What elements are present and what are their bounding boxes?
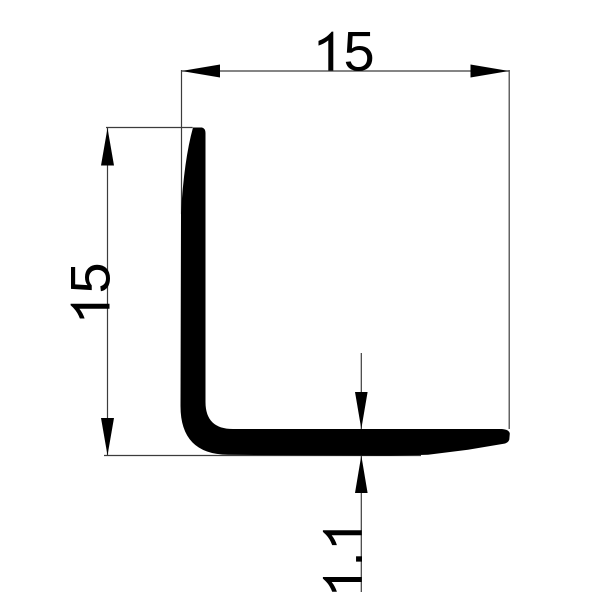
arrowhead: left dim bottom — [101, 418, 114, 456]
svg-text:5: 5 — [344, 20, 375, 83]
arrowhead: top dim left — [182, 65, 221, 78]
dimension line: left height 15 — [107, 128, 109, 456]
dimension text: 15 (left, rotated) — [59, 262, 122, 318]
extension line: top-left vertical — [181, 70, 183, 214]
extension line: left-top horizontal — [106, 127, 193, 129]
extension line: left-bottom horizontal — [104, 455, 421, 457]
L-profile cross-section (black fill) — [181, 128, 510, 456]
dimension text: 1.1 (rotated) — [311, 530, 374, 592]
svg-text:5: 5 — [59, 262, 122, 293]
extension line: top-right vertical — [508, 70, 510, 429]
arrowhead: left dim top — [101, 128, 114, 166]
svg-text:.: . — [311, 551, 374, 567]
dimension line: thickness 1.1 vertical — [360, 353, 362, 592]
arrowhead: top dim right — [471, 65, 510, 78]
arrowhead: 1.1 dim top (pointing down) — [355, 392, 368, 429]
dimension line: top width 15 — [182, 70, 510, 72]
dimension text: 15 (top) — [319, 20, 375, 83]
arrowhead: 1.1 dim bottom (pointing up) — [355, 456, 368, 494]
